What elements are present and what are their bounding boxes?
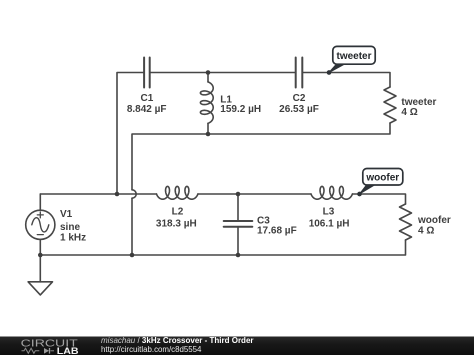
svg-text:C2: C2: [293, 93, 306, 104]
svg-text:V1: V1: [60, 209, 73, 220]
svg-text:106.1 µH: 106.1 µH: [309, 218, 350, 229]
svg-text:26.53 µF: 26.53 µF: [279, 104, 319, 115]
svg-text:4 Ω: 4 Ω: [418, 226, 434, 237]
svg-text:17.68 µF: 17.68 µF: [257, 226, 297, 237]
svg-text:1 kHz: 1 kHz: [60, 233, 86, 244]
svg-text:tweeter: tweeter: [336, 51, 371, 62]
svg-text:159.2 µH: 159.2 µH: [220, 104, 261, 115]
svg-text:sine: sine: [60, 222, 80, 233]
svg-text:4 Ω: 4 Ω: [401, 107, 417, 118]
svg-text:C1: C1: [141, 93, 154, 104]
svg-text:woofer: woofer: [365, 172, 399, 183]
svg-text:LAB: LAB: [57, 346, 79, 355]
svg-text:L3: L3: [323, 207, 335, 218]
svg-text:http://circuitlab.com/c8d5554: http://circuitlab.com/c8d5554: [101, 345, 202, 354]
svg-text:8.842 µF: 8.842 µF: [127, 104, 167, 115]
svg-text:L2: L2: [172, 207, 184, 218]
svg-text:318.3 µH: 318.3 µH: [156, 218, 197, 229]
svg-text:misachau / 3kHz Crossover - Th: misachau / 3kHz Crossover - Third Order: [101, 336, 254, 345]
